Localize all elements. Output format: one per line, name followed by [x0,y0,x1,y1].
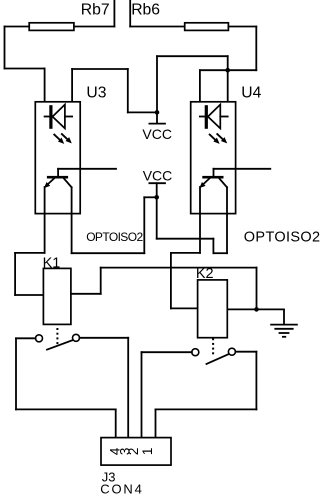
node VCC2 junction dot [154,195,159,200]
wire U4 cathode pin [199,70,201,116]
svg-text:Rb7: Rb7 [81,1,110,18]
U4 light emission arrows [209,133,226,143]
K2 coil link dotted line [212,338,214,354]
svg-text:OPTOISO2: OPTOISO2 [86,230,143,244]
wire ground drop [256,268,258,310]
svg-text:U4: U4 [241,85,261,102]
svg-text:OPTOISO2: OPTOISO2 [244,229,320,245]
power VCC symbol 1 [142,112,172,141]
K1 coil link dotted line [56,328,58,344]
node VCC1 junction dot [155,110,160,115]
diode U4 LED [200,105,228,129]
wire Rb6 right lead [228,26,256,28]
wire bottom run to pin 1 [156,408,257,410]
wire K1 switch left lead [16,337,36,339]
wire Rb7 right lead [74,26,115,28]
wire Rb7 left lead [5,26,30,28]
wire U3 cathode pin [44,69,46,117]
wire pin 4 lead [115,409,117,437]
transistor U3 phototransistor [45,169,72,188]
wire K1 to ground run [101,267,257,269]
wire VCC2 left drop [143,197,145,253]
wire VCC2 jog right [157,238,214,240]
node ground junction dot [254,307,259,312]
wire VCC2 to U3 base leg [72,252,145,254]
wire to VCC node [128,111,157,113]
resistor Rb6 [185,23,229,31]
wire K2 switch right lead [235,351,256,353]
wire K2 left drop [170,253,172,309]
wire U4 anode pin [227,70,229,116]
wire to U3 cathode [5,68,45,70]
wire K1 right rise [100,268,102,294]
wire U3 emitter down [44,187,46,253]
wire to K2 coil [171,307,198,309]
svg-text:U3: U3 [86,84,106,101]
wire U3 anode horizontal [72,68,128,70]
wire K2 switch left lead [142,351,192,353]
resistor Rb7 [29,23,74,31]
svg-text:Rb6: Rb6 [131,1,160,18]
wire node A to U4 cathode [200,69,228,71]
switch K1 contacts [36,334,80,349]
wire U3 emitter to K1 [15,252,44,254]
wire VCC2 jog drop [212,239,214,254]
wire anode drop [127,69,129,112]
wire pin 2 lead [141,352,143,437]
node A junction dot [225,68,230,73]
wire Rb6 top feed [129,0,131,27]
switch K2 contacts [192,348,236,364]
wire VCC2 down branch [156,197,158,238]
relay K2 coil [198,280,228,338]
connector J3 [101,438,171,466]
svg-text:K2: K2 [196,266,214,282]
wire K2 right drop [255,352,257,410]
wire VCC branch horizontal [157,55,228,57]
U3 light emission arrows [54,133,71,143]
op-amp U4 optoisolator box [191,102,236,214]
wire K1 left drop [14,253,16,295]
ground [270,309,298,336]
wire pin 1 lead [155,409,157,437]
wire VCC2 to U4 base leg [213,252,227,254]
wire bottom run to pin 4 [16,408,116,410]
wire left drop [4,27,6,69]
wire VCC branch down to node A [227,56,229,70]
svg-text:1: 1 [140,448,155,456]
wire node to ground [257,308,285,310]
diode U3 LED [45,105,73,129]
wire K2 right pin to node [227,308,256,310]
svg-text:K1: K1 [43,255,61,271]
transistor U4 phototransistor [200,169,227,188]
power VCC symbol 2 [143,167,173,197]
wire U4 base leg down [226,187,228,253]
relay K1 coil [43,268,71,324]
wire pin 3 lead [127,338,129,438]
wire U3 base leg down [71,187,73,253]
wire K1 switch left drop [15,338,17,409]
svg-text:2: 2 [126,448,141,456]
wire to node A [228,69,257,71]
wire VCC2 left branch [144,196,156,198]
svg-text:VCC: VCC [143,167,173,183]
wire U3 anode pin [71,69,73,117]
wire right drop [255,27,257,71]
wire U4 emitter down [199,187,201,253]
wire U4 emitter to K2 [171,252,200,254]
wire to K1 coil [15,294,43,296]
wire Rb7 top feed [113,0,115,27]
op-amp U3 optoisolator box [35,102,80,214]
wire U4 collector stub [214,168,271,170]
wire U3 collector stub [58,168,116,170]
wire VCC stem drop [156,56,158,112]
wire K1 right pin [71,293,101,295]
wire Rb6 left lead [130,26,185,28]
svg-text:VCC: VCC [142,126,172,142]
svg-text:CON4: CON4 [100,482,143,495]
wire K1 switch right lead [80,337,129,339]
